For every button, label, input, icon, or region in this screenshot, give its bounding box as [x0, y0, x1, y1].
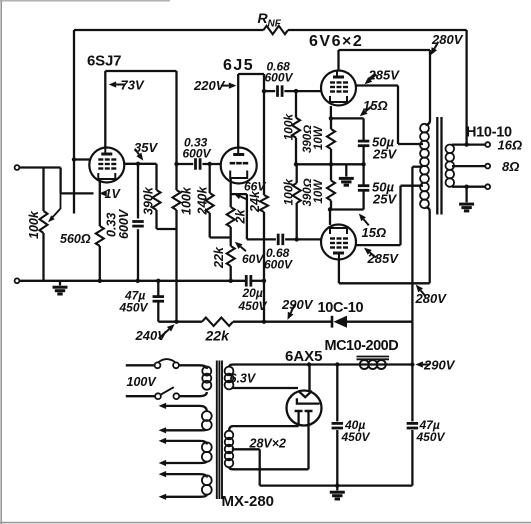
svg-text:20µ: 20µ: [242, 286, 263, 300]
svg-text:240k: 240k: [196, 186, 210, 216]
svg-text:290V: 290V: [281, 297, 314, 312]
svg-text:290V: 290V: [423, 358, 456, 373]
svg-text:100k: 100k: [282, 177, 296, 205]
svg-text:600V: 600V: [183, 147, 212, 161]
svg-text:560Ω: 560Ω: [60, 232, 91, 246]
svg-text:25V: 25V: [372, 192, 397, 207]
svg-text:1V: 1V: [105, 187, 122, 201]
svg-text:285V: 285V: [368, 68, 401, 83]
svg-text:100k: 100k: [27, 210, 41, 239]
svg-text:22k: 22k: [205, 328, 231, 344]
svg-text:73V: 73V: [121, 78, 145, 93]
svg-text:10C-10: 10C-10: [318, 300, 364, 316]
svg-text:220V: 220V: [193, 78, 226, 93]
svg-text:450V: 450V: [119, 301, 149, 315]
svg-text:100k: 100k: [282, 112, 296, 140]
svg-text:6.3V: 6.3V: [230, 372, 257, 386]
svg-text:100V: 100V: [127, 375, 158, 389]
svg-text:22k: 22k: [212, 246, 226, 269]
svg-text:450V: 450V: [416, 430, 446, 444]
svg-text:15Ω: 15Ω: [362, 225, 387, 240]
svg-text:MC10-200D: MC10-200D: [325, 338, 399, 354]
svg-text:10W: 10W: [313, 125, 325, 150]
svg-text:16Ω: 16Ω: [498, 138, 523, 153]
svg-text:8Ω: 8Ω: [502, 159, 519, 174]
svg-text:28V×2: 28V×2: [249, 437, 287, 451]
svg-text:6V6×2: 6V6×2: [309, 33, 363, 50]
svg-text:100k: 100k: [180, 186, 194, 215]
svg-text:6SJ7: 6SJ7: [87, 53, 121, 70]
svg-text:NF: NF: [268, 19, 282, 30]
svg-text:600V: 600V: [265, 71, 294, 85]
svg-text:6J5: 6J5: [223, 57, 254, 74]
svg-text:10W: 10W: [313, 179, 325, 204]
svg-text:600V: 600V: [117, 208, 131, 239]
svg-text:24k: 24k: [248, 190, 262, 213]
svg-text:450V: 450V: [238, 299, 268, 313]
svg-text:450V: 450V: [341, 430, 371, 444]
svg-text:60V: 60V: [242, 252, 264, 266]
svg-text:2k: 2k: [234, 209, 248, 225]
svg-text:25V: 25V: [372, 147, 397, 162]
svg-text:600V: 600V: [264, 258, 293, 272]
svg-text:6AX5: 6AX5: [285, 348, 323, 365]
svg-text:390k: 390k: [142, 186, 156, 215]
svg-text:MX-280: MX-280: [222, 493, 275, 510]
svg-text:280V: 280V: [415, 291, 448, 306]
